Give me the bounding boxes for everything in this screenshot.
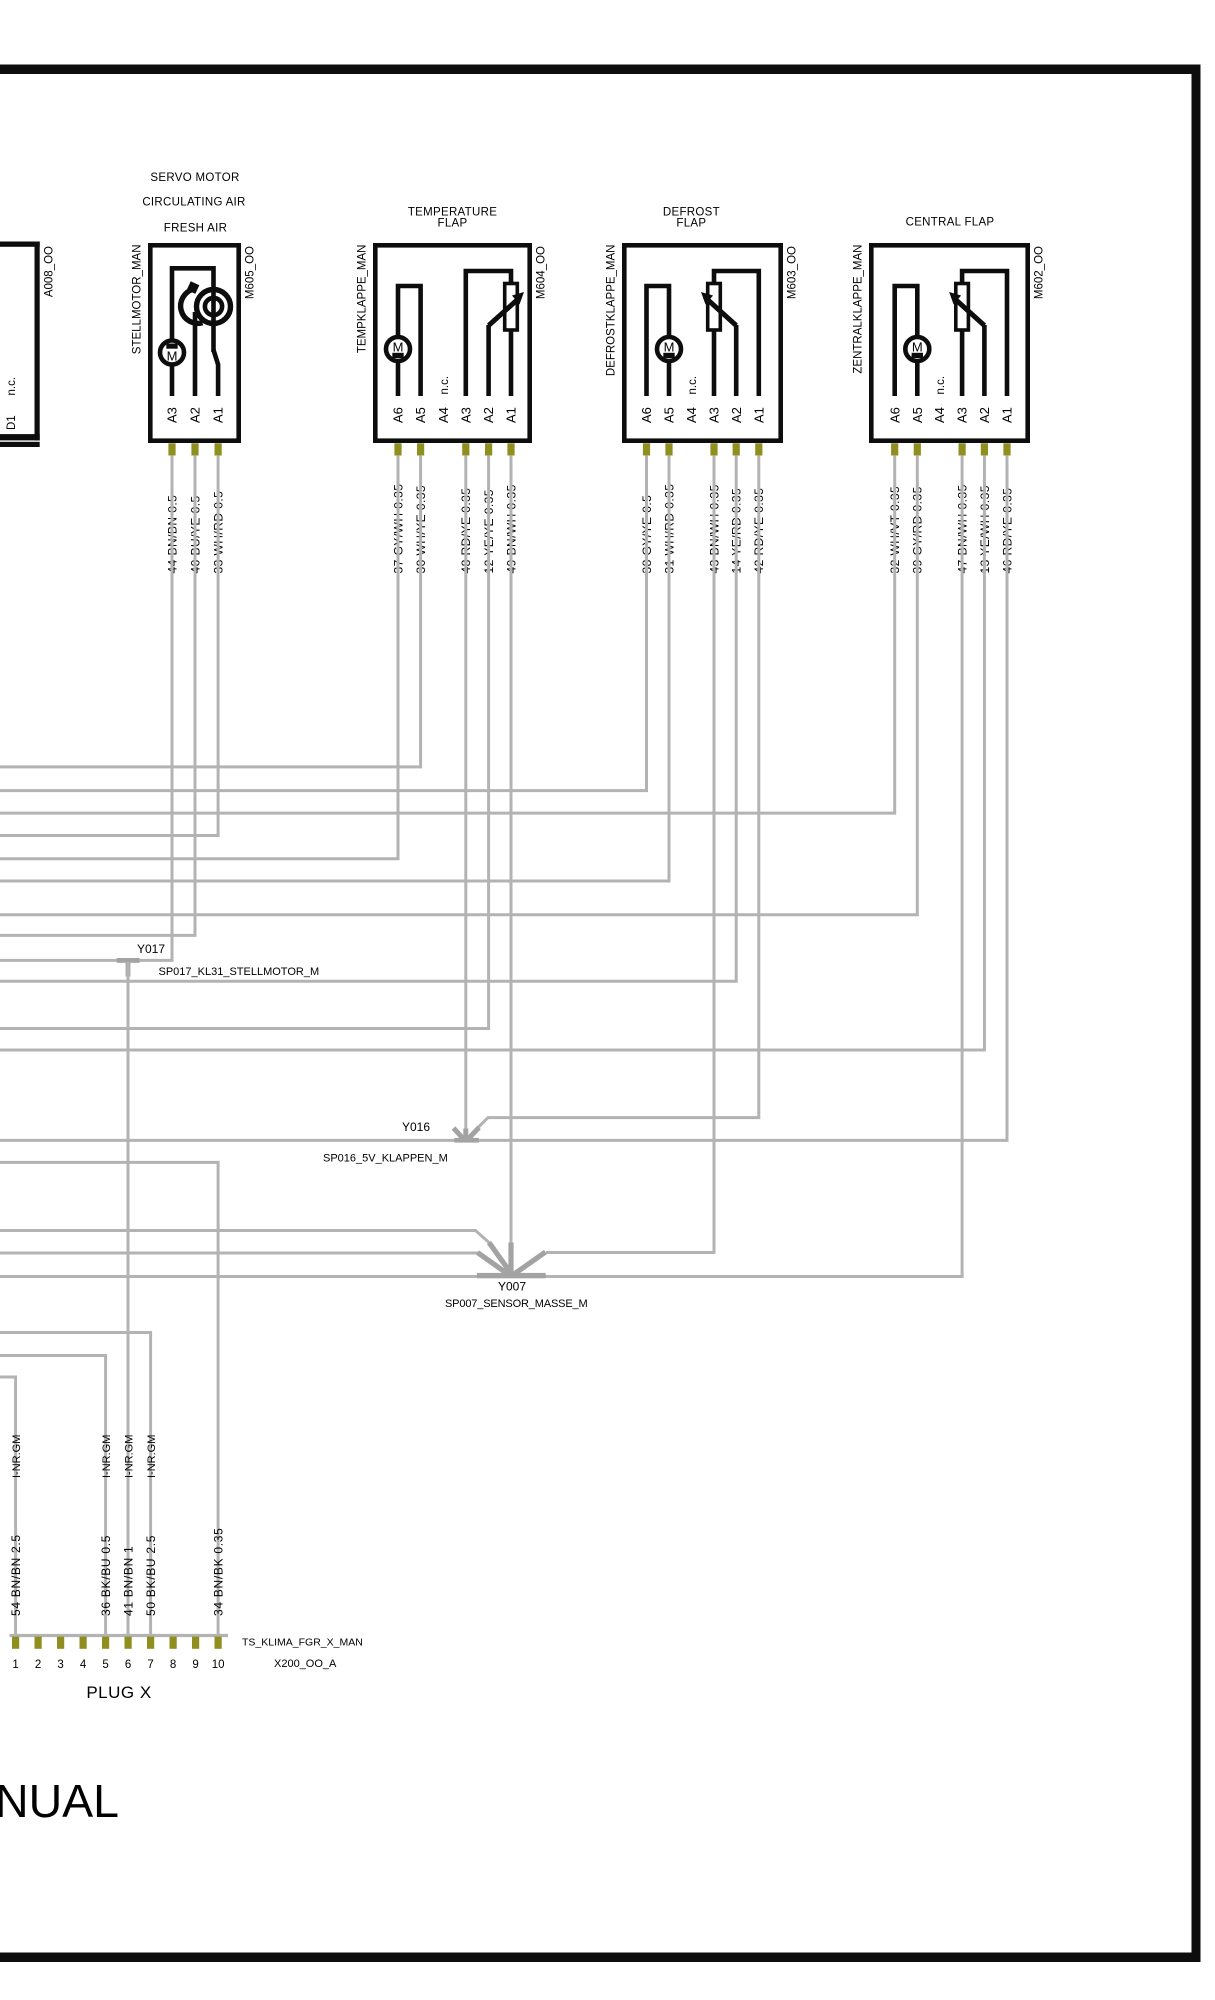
motor M (M605) <box>160 341 184 365</box>
wire A2 (M602) <box>982 325 987 396</box>
wire bracket A3-A1 top (M603) <box>714 271 759 396</box>
wire bracket A3-A1 top (M602) <box>962 271 1007 396</box>
svg-text:STELLMOTOR_MAN: STELLMOTOR_MAN <box>132 245 144 355</box>
connector pad M602 A1 <box>1003 443 1010 455</box>
svg-text:TS_KLIMA_FGR_X_MAN: TS_KLIMA_FGR_X_MAN <box>242 1637 363 1649</box>
potentiometer resistor on A3 (M603) <box>708 284 721 331</box>
wire M602 A6 to left edge (row y=813.1) <box>0 455 895 813</box>
wire M602 A2 to left edge (row y=1050.0) <box>0 455 984 1050</box>
svg-text:SERVO MOTOR: SERVO MOTOR <box>150 172 239 184</box>
wire Y017 down to plug pin 6 <box>127 962 130 1636</box>
wire bracket A3-A1 top (M604) <box>466 271 511 396</box>
wire bracket A6-A5 (M603) <box>647 286 670 396</box>
svg-text:A1: A1 <box>504 407 519 423</box>
svg-text:50 BK/BU 2.5: 50 BK/BU 2.5 <box>144 1535 158 1616</box>
svg-text:I-NR.GM: I-NR.GM <box>11 1435 23 1478</box>
svg-text:SP016_5V_KLAPPEN_M: SP016_5V_KLAPPEN_M <box>323 1153 448 1165</box>
svg-text:10: 10 <box>212 1659 225 1671</box>
svg-text:A4: A4 <box>684 407 699 423</box>
wire A2 (M603) <box>734 325 739 396</box>
wiper arrow from A2 (M603) <box>708 300 736 326</box>
wire Y007 bottom row to M602 A3 <box>0 455 962 1276</box>
wire Y016 row to M602 A1 <box>0 455 1007 1140</box>
svg-text:7: 7 <box>147 1659 153 1671</box>
connector pad PLUG X pin 6 <box>125 1637 132 1649</box>
svg-text:Y016: Y016 <box>402 1120 430 1134</box>
svg-text:36 BK/BU 0.5: 36 BK/BU 0.5 <box>99 1535 113 1616</box>
wire row y=1377 to plug pin 1 <box>0 1377 16 1636</box>
svg-text:SP017_KL31_STELLMOTOR_M: SP017_KL31_STELLMOTOR_M <box>159 966 320 978</box>
svg-text:A4: A4 <box>932 407 947 423</box>
svg-text:9: 9 <box>192 1659 198 1671</box>
wire bracket A3-A1 top (M605) <box>172 268 214 352</box>
svg-text:2: 2 <box>35 1659 41 1671</box>
connector pad PLUG X pin 7 <box>147 1637 154 1649</box>
svg-text:8: 8 <box>170 1659 176 1671</box>
connector pad M605 A1 <box>215 443 222 455</box>
svg-text:A5: A5 <box>662 407 677 423</box>
connector pad M604 A2 <box>485 443 492 455</box>
servo motor M602 ZENTRALKLAPPE_MAN box <box>871 245 1027 440</box>
svg-text:5: 5 <box>102 1659 108 1671</box>
connector pad PLUG X pin 9 <box>192 1637 199 1649</box>
svg-text:A6: A6 <box>391 407 406 423</box>
wire A1 below resistor (M604) <box>509 330 514 396</box>
connector pad PLUG X pin 3 <box>57 1637 64 1649</box>
motor M (M603) <box>657 337 681 361</box>
wire left row into Y007 (y=1253) <box>0 1252 478 1255</box>
wire A3 below resistor (M603) <box>712 330 717 396</box>
svg-text:A3: A3 <box>165 407 180 423</box>
connector pad M603 A5 <box>665 443 672 455</box>
wire bracket A6-A5 (M604) <box>398 286 421 396</box>
connector pad M603 A2 <box>733 443 740 455</box>
wire below motor (M604) <box>396 361 401 396</box>
svg-text:NUAL: NUAL <box>0 1775 119 1827</box>
connector PLUG X rail <box>10 1634 229 1637</box>
svg-text:M: M <box>912 340 923 355</box>
connector pad M602 A2 <box>981 443 988 455</box>
svg-text:I-NR.GM: I-NR.GM <box>146 1435 158 1478</box>
svg-text:34 BN/BK 0.35: 34 BN/BK 0.35 <box>212 1528 226 1616</box>
svg-text:TEMPKLAPPE_MAN: TEMPKLAPPE_MAN <box>357 245 369 354</box>
svg-text:I-NR.GM: I-NR.GM <box>101 1435 113 1478</box>
connector pad M605 A3 <box>168 443 175 455</box>
svg-text:A2: A2 <box>481 407 496 423</box>
connector pad PLUG X pin 2 <box>35 1637 42 1649</box>
svg-text:M604_OO: M604_OO <box>536 246 548 299</box>
servo motor M603 DEFROSTKLAPPE_MAN box <box>624 245 780 440</box>
connector pad M605 A2 <box>191 443 198 455</box>
svg-text:A2: A2 <box>977 407 992 423</box>
svg-text:A6: A6 <box>639 407 654 423</box>
junction Y017 stub <box>126 961 131 977</box>
wire below motor (M602) <box>915 361 920 396</box>
svg-text:M605_OO: M605_OO <box>245 246 257 299</box>
rotation arrow arc (M605) <box>181 289 203 323</box>
svg-text:M: M <box>167 349 178 364</box>
wire A3 below resistor (M602) <box>960 330 965 396</box>
wire M604 A6 to left edge (row y=858.7) <box>0 455 398 858</box>
wire M603 A2 to left edge (row y=981.3) <box>0 455 736 981</box>
connector pad M602 A5 <box>914 443 921 455</box>
svg-text:X200_OO_A: X200_OO_A <box>274 1658 337 1670</box>
svg-text:A3: A3 <box>955 407 970 423</box>
connector pad M603 A3 <box>710 443 717 455</box>
wire below motor (M603) <box>667 361 672 396</box>
svg-text:3: 3 <box>57 1659 63 1671</box>
svg-text:A2: A2 <box>188 407 203 423</box>
svg-text:Y017: Y017 <box>137 942 165 956</box>
connector pad PLUG X pin 10 <box>215 1637 222 1649</box>
wire M603 A3 dogleg to Y007 <box>546 455 714 1252</box>
connector pad M602 A6 <box>891 443 898 455</box>
svg-text:M602_OO: M602_OO <box>1034 246 1046 299</box>
wire M603 A1 dogleg to Y016 <box>477 455 759 1128</box>
wiper arrow from A2 (M604) <box>489 300 517 326</box>
wire M605 A2 to left edge (row y=935.4) <box>0 455 195 935</box>
connector pad M604 A6 <box>394 443 401 455</box>
svg-text:Y007: Y007 <box>498 1280 526 1294</box>
svg-text:M: M <box>393 340 404 355</box>
wire row y=1332.5 to plug pin 7 <box>0 1333 151 1637</box>
svg-text:CENTRAL FLAP: CENTRAL FLAP <box>906 217 995 229</box>
motor M (M602) <box>905 337 929 361</box>
svg-text:6: 6 <box>125 1659 131 1671</box>
connector pad PLUG X pin 8 <box>170 1637 177 1649</box>
svg-text:FLAP: FLAP <box>676 218 706 230</box>
wire bracket A6-A5 (M602) <box>895 286 918 396</box>
wire M604 A5 to left edge (row y=766.9) <box>0 455 421 767</box>
svg-text:A6: A6 <box>887 407 902 423</box>
svg-text:A008_OO: A008_OO <box>44 246 56 297</box>
svg-text:A5: A5 <box>413 407 428 423</box>
junction Y007 arrows <box>478 1243 546 1276</box>
connector pad PLUG X pin 5 <box>102 1637 109 1649</box>
svg-text:A2: A2 <box>729 407 744 423</box>
svg-text:M: M <box>664 340 675 355</box>
wiper arrow from A2 (M602) <box>956 300 984 326</box>
wire M603 A5 to left edge (row y=881.0) <box>0 455 669 881</box>
svg-text:A3: A3 <box>458 407 473 423</box>
svg-text:D1: D1 <box>6 415 18 430</box>
motor M (M604) <box>386 337 410 361</box>
wire M604 A2 to left edge (row y=1028.5) <box>0 455 489 1028</box>
svg-text:A3: A3 <box>707 407 722 423</box>
wire M603 A6 to left edge (row y=790.6) <box>0 455 647 790</box>
wire left row into Y007 (y=1230.5) <box>0 1231 490 1244</box>
wire A2 (M604) <box>486 325 491 396</box>
svg-text:I-NR.GM: I-NR.GM <box>124 1435 136 1478</box>
connector pad M604 A1 <box>507 443 514 455</box>
svg-text:DEFROSTKLAPPE_MAN: DEFROSTKLAPPE_MAN <box>606 245 618 377</box>
wire M605 A3 to Y017 row <box>0 455 172 960</box>
wire M604 A3 down to Y016 <box>464 455 467 1129</box>
wire A1 with jog (M605) <box>214 350 219 396</box>
junction Y007 bar <box>477 1273 546 1278</box>
svg-text:A1: A1 <box>211 407 226 423</box>
svg-text:n.c.: n.c. <box>439 376 451 395</box>
svg-text:n.c.: n.c. <box>6 377 18 396</box>
rotary position sensor symbol (M605) <box>197 290 231 324</box>
junction Y016 arrow <box>454 1128 480 1141</box>
svg-text:A1: A1 <box>751 407 766 423</box>
wire M604 A1 down to Y007 <box>510 455 513 1243</box>
connector pad PLUG X pin 4 <box>80 1637 87 1649</box>
svg-text:M603_OO: M603_OO <box>787 246 799 299</box>
svg-text:SP007_SENSOR_MASSE_M: SP007_SENSOR_MASSE_M <box>445 1298 588 1310</box>
wire A2 (M605) <box>193 312 198 396</box>
junction Y017 bar <box>117 958 140 963</box>
svg-text:ZENTRALKLAPPE_MAN: ZENTRALKLAPPE_MAN <box>853 245 865 374</box>
connector A008_OO (partial box at left edge) <box>0 242 40 448</box>
connector pad M602 A3 <box>959 443 966 455</box>
connector pad M603 A6 <box>643 443 650 455</box>
svg-text:A4: A4 <box>436 407 451 423</box>
svg-text:PLUG X: PLUG X <box>86 1683 151 1702</box>
svg-text:54 BN/BN 2.5: 54 BN/BN 2.5 <box>9 1534 23 1616</box>
svg-text:A1: A1 <box>1000 407 1015 423</box>
svg-text:A5: A5 <box>910 407 925 423</box>
connector pad M604 A5 <box>417 443 424 455</box>
svg-text:n.c.: n.c. <box>687 376 699 395</box>
wire row y=1355.5 to plug pin 5 <box>0 1356 106 1637</box>
connector pad M603 A1 <box>755 443 762 455</box>
connector pad M604 A3 <box>462 443 469 455</box>
svg-text:FRESH AIR: FRESH AIR <box>164 223 227 235</box>
servo motor M604 TEMPKLAPPE_MAN box <box>375 245 529 440</box>
potentiometer resistor on A3 (M602) <box>956 284 969 331</box>
potentiometer resistor on A1 (M604) <box>505 284 518 331</box>
servo motor M605 STELLMOTOR_MAN box <box>150 245 238 440</box>
wire M602 A5 to left edge (row y=914.8) <box>0 455 917 915</box>
svg-text:1: 1 <box>12 1659 18 1671</box>
svg-text:41 BN/BN 1: 41 BN/BN 1 <box>122 1546 136 1616</box>
svg-text:CIRCULATING AIR: CIRCULATING AIR <box>142 197 245 209</box>
wire row y=1162.4 to plug pin 10 <box>0 1162 218 1636</box>
wire A3 below motor (M605) <box>170 365 175 397</box>
wire M605 A1 to left edge (row y=835.5) <box>0 455 218 835</box>
svg-text:n.c.: n.c. <box>935 376 947 395</box>
svg-text:FLAP: FLAP <box>438 218 468 230</box>
svg-text:4: 4 <box>80 1659 87 1671</box>
connector pad PLUG X pin 1 <box>12 1637 19 1649</box>
